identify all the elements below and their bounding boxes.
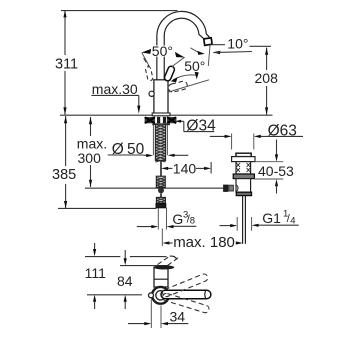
svg-text:Ø34: Ø34: [186, 118, 216, 135]
dimension 311 vertical line: [63, 10, 66, 114]
label max.30 with leader arrow: [91, 81, 140, 114]
10 deg angle arrows: [191, 48, 253, 55]
svg-text:max.: max.: [77, 135, 107, 151]
svg-text:111: 111: [85, 265, 106, 281]
outlet axis ray (10 deg): [208, 46, 210, 66]
dimension 40-53: [254, 140, 294, 194]
waste tailpipe: [243, 196, 246, 244]
label 311: [55, 56, 78, 72]
svg-text:311: 311: [55, 56, 78, 72]
threaded shank: [155, 124, 165, 162]
aerator tip: [204, 38, 212, 46]
svg-text:Ø63: Ø63: [268, 123, 297, 140]
pop-up waste cap: [236, 153, 251, 156]
countertop line: [60, 114, 273, 116]
lift rod knob front: [149, 91, 154, 96]
svg-text:G1: G1: [262, 210, 281, 226]
side view body mid line: [154, 278, 168, 280]
hose coupler 2: [156, 197, 165, 203]
10 deg right reference line: [250, 45, 272, 47]
G1 1/4 extension lines: [237, 217, 251, 231]
waste side outlet block: [223, 185, 238, 192]
top reference line (spout top): [61, 10, 178, 12]
label 84: [117, 273, 133, 289]
dimension 111 arrows: [93, 243, 96, 309]
spout gooseneck arc: [157, 11, 210, 39]
svg-text:8: 8: [190, 216, 195, 227]
side view solid lever: [161, 290, 211, 298]
svg-text:300: 300: [78, 150, 102, 166]
side view spout base ellipse: [154, 265, 175, 269]
side view spout cut (dashed): [158, 256, 179, 265]
label 385: [52, 167, 76, 183]
pop-up rod horizontal: [85, 187, 224, 189]
base ring above counter: [152, 113, 170, 116]
svg-text:84: 84: [117, 273, 133, 289]
dimension 34: [128, 299, 188, 328]
label O50 with arrows: [108, 141, 189, 158]
solid lever front: [164, 65, 176, 81]
label 208: [255, 70, 279, 86]
label 10deg: [227, 36, 248, 52]
side view: reference line (84): [120, 265, 168, 267]
svg-text:max.30: max.30: [92, 81, 138, 97]
pop-up waste collar: [233, 174, 254, 179]
svg-text:50°: 50°: [184, 58, 205, 74]
10 deg leader to label: [211, 44, 225, 46]
lever axis reference line: [87, 294, 142, 296]
pop-up waste flange: [232, 157, 255, 162]
side view knob: [149, 293, 154, 298]
svg-text:10°: 10°: [227, 36, 248, 52]
label G1 1/4 with arrows: [220, 208, 299, 227]
side view dashed lever down: [162, 292, 210, 313]
G3/8 extension lines: [158, 208, 166, 230]
svg-text:50°: 50°: [152, 43, 173, 59]
svg-text:208: 208: [255, 70, 279, 86]
side view body: [154, 267, 168, 287]
label 50deg right with leader arrows: [171, 58, 207, 82]
svg-text:40-53: 40-53: [258, 163, 294, 179]
label G3/8 with arrows: [137, 210, 197, 229]
pop-up waste neck with seal hatching: [236, 162, 251, 174]
pull rod below shank: [160, 161, 162, 176]
label O63 with arrows: [210, 123, 303, 150]
label 111: [85, 265, 106, 281]
dimension 385 vertical line: [64, 116, 67, 208]
dimension max.300 vertical line: [89, 117, 92, 187]
svg-text:4: 4: [290, 215, 295, 226]
svg-text:G: G: [172, 211, 183, 227]
ball joint: [158, 187, 164, 193]
spout left leg tube: [157, 36, 164, 80]
label max. 300: [77, 135, 107, 166]
hose coupler 1: [156, 176, 165, 187]
mounting hardware under counter: [145, 117, 177, 125]
dashed lever right (front): [168, 80, 188, 93]
svg-text:140: 140: [173, 160, 197, 176]
svg-text:385: 385: [52, 167, 76, 183]
side view: reference line top (111): [85, 256, 167, 258]
supply hose lines beside shank: [153, 125, 167, 156]
side view dashed lever up: [161, 273, 208, 298]
dimension 140: [161, 160, 211, 176]
dimension max.180: [162, 229, 243, 252]
axis line right: [169, 80, 210, 92]
dashed lever left (front): [145, 66, 153, 81]
label 50deg left with leader arrows: [142, 43, 185, 67]
rod below ball: [160, 193, 162, 197]
svg-text:max. 180: max. 180: [173, 234, 235, 251]
supply end cap G3/8: [156, 204, 166, 208]
dashed axis line left: [144, 58, 150, 67]
side view pivot ring: [152, 287, 169, 304]
pop-up waste body: [236, 179, 251, 193]
bottom reference line (supply end): [58, 207, 156, 209]
label O34 boxed with leader: [175, 118, 216, 135]
pop-up waste bottom band: [236, 192, 251, 195]
dimension 84 arrows: [124, 250, 127, 309]
dimension 208 vertical line: [265, 48, 268, 115]
faucet body front: [154, 80, 168, 113]
svg-text:34: 34: [170, 309, 186, 325]
